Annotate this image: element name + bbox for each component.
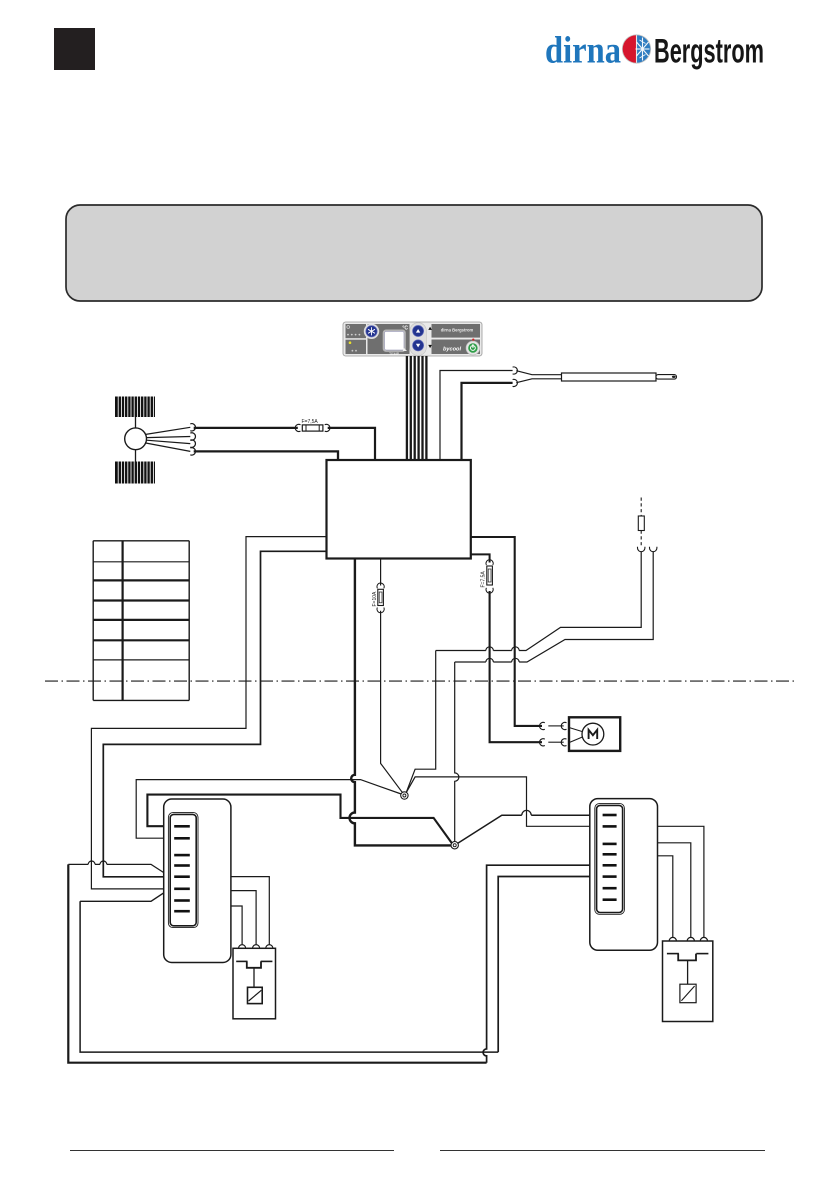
svg-text:F=7,5A: F=7,5A	[302, 419, 319, 425]
svg-text:F=10A: F=10A	[372, 591, 378, 607]
svg-text:TEMP: TEMP	[389, 352, 400, 356]
svg-text:dirna: dirna	[545, 30, 621, 72]
svg-text:Bergstrom: Bergstrom	[654, 33, 764, 71]
svg-text:°C: °C	[402, 326, 408, 332]
svg-text:bycool: bycool	[443, 347, 461, 353]
svg-text:F=7,5A: F=7,5A	[481, 571, 487, 588]
svg-text:dirna Bergstrom: dirna Bergstrom	[441, 328, 474, 333]
